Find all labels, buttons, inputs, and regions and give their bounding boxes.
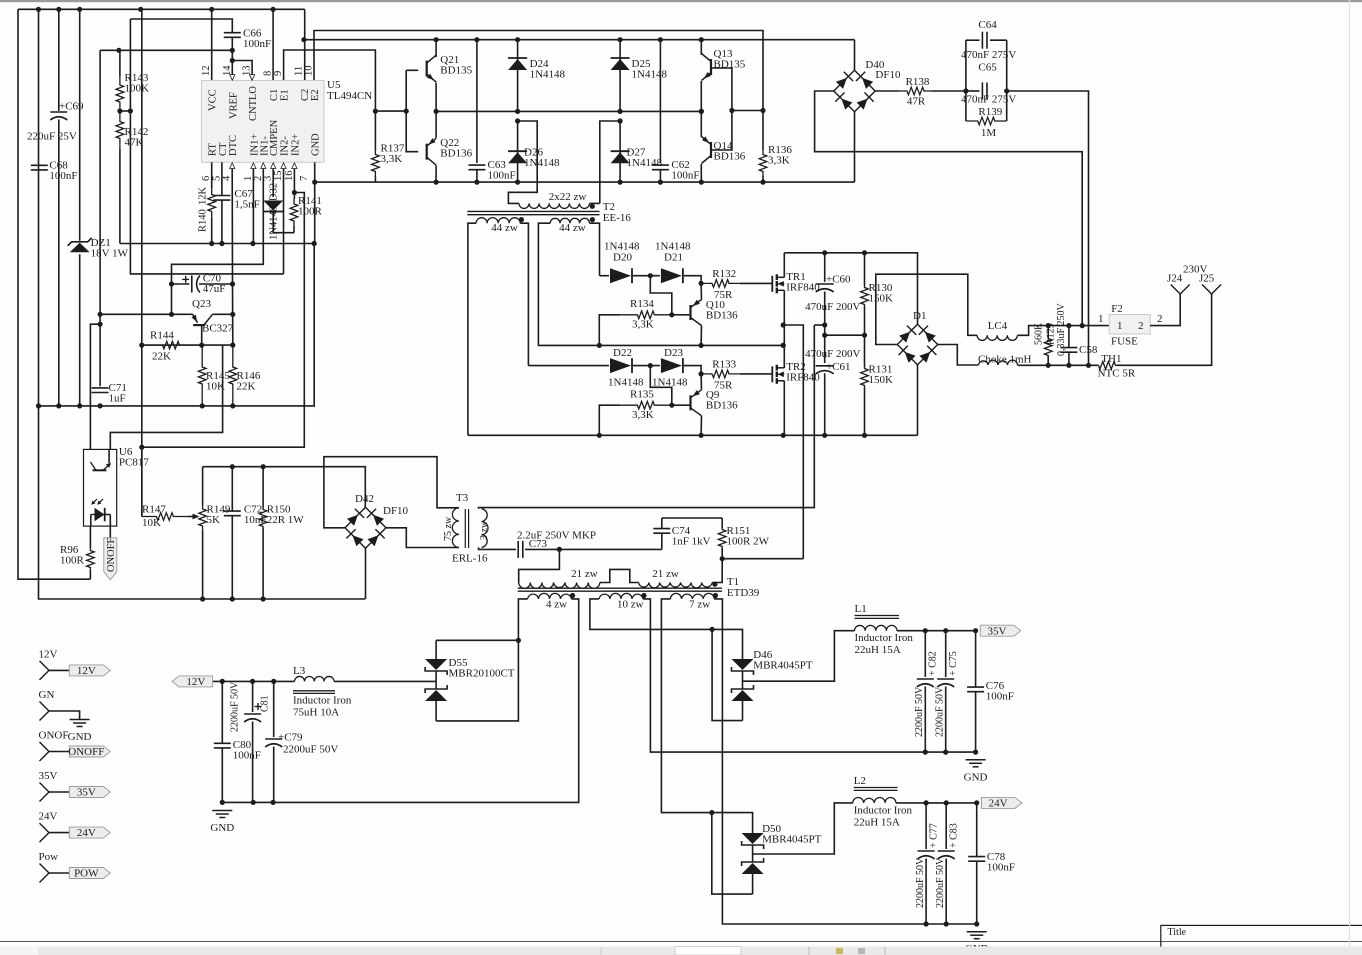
label R147 (142, 504, 166, 516)
transistor TR1 IRF840 (772, 274, 784, 293)
label F2 pin2 wire (1157, 313, 1163, 325)
junction (312, 180, 317, 185)
connector J24 (1171, 285, 1190, 295)
junction (1046, 363, 1092, 368)
wire R130 bottom / R131 top (864, 306, 866, 367)
wire GND bus y406 up to pin7 column (39, 244, 315, 406)
label C77 (929, 823, 940, 848)
zener DZ1 (68, 238, 92, 252)
net flag ONOFF (vertical) (104, 537, 117, 579)
wire base column down to Q22 (406, 70, 418, 151)
resistor R142 (116, 111, 124, 149)
wire D46 cathode to L1 (743, 631, 855, 682)
label C69 (59, 101, 84, 113)
wire base top jog (406, 69, 418, 71)
capacitor C60 (816, 284, 834, 292)
wire R147 left column (141, 447, 143, 516)
svg-text:Inductor Iron: Inductor Iron (855, 632, 914, 644)
wire C67 bottom (221, 200, 223, 244)
wire top VCC-aux bus y9 (18, 8, 305, 10)
wire L3 to 12V flag (213, 680, 295, 682)
label TH1 value (1098, 368, 1136, 380)
wire cap-mid jumper to T3 riser (814, 324, 824, 326)
svg-text:D22: D22 (613, 347, 632, 359)
capacitor C65 (982, 83, 987, 100)
wire D24/D26 node to T2 primary left (508, 121, 537, 203)
svg-text:MBR4045PT: MBR4045PT (753, 660, 813, 672)
wire C72 bottom (231, 516, 233, 599)
resistor R129 (1044, 338, 1052, 356)
junction (230, 58, 235, 63)
wire D46 anode loop left (712, 629, 742, 720)
wire stub 24V to flag (49, 832, 69, 834)
label C66 (243, 28, 271, 51)
svg-text:+C69: +C69 (59, 101, 84, 113)
capacitor C64 (982, 32, 987, 49)
label D23 value (652, 377, 688, 389)
label C70 (203, 273, 226, 296)
label T2 (603, 201, 632, 224)
wire 4zw left to D55 top (436, 639, 518, 641)
svg-text:100R: 100R (298, 206, 323, 218)
wire IN2- pin15 column (283, 169, 285, 274)
resistor R141 (290, 199, 298, 226)
wire R141 bottom stub (293, 226, 295, 233)
svg-text:Q23: Q23 (192, 298, 211, 310)
svg-text:J24: J24 (1167, 273, 1183, 285)
svg-text:D20: D20 (613, 252, 632, 264)
wire R137 bottom (374, 176, 376, 182)
diode D27 (611, 121, 630, 182)
resistor R134 (620, 311, 672, 319)
wire E1 line to Q21/Q22 drive (284, 50, 376, 111)
svg-text:GND: GND (964, 772, 988, 784)
junction T1 primary phase dot (712, 582, 717, 587)
wire R149 bottom (202, 530, 204, 599)
junction (36, 403, 236, 408)
wire D20-D21 link (633, 275, 660, 277)
capacitor C61 (816, 366, 834, 374)
junction (220, 800, 276, 805)
op-amp U5 TL494CN body (202, 81, 325, 163)
svg-text:D21: D21 (664, 252, 683, 264)
wire U6 collector to VREF column (90, 324, 100, 449)
label Q23 value (202, 323, 234, 335)
inductor T3 secondary 3zw (482, 509, 489, 548)
label F2 value (1111, 336, 1138, 348)
wire y467 line to D42 top (203, 467, 366, 508)
svg-text:D23: D23 (664, 347, 683, 359)
junction (862, 333, 867, 338)
label C67 (234, 188, 259, 211)
wire stub ONOF to flag (49, 751, 69, 753)
wire C70 left lead (172, 283, 190, 285)
svg-text:R132: R132 (712, 268, 736, 280)
wire J25 to TH1 right (1117, 294, 1212, 365)
wire R140 bottom (211, 218, 213, 244)
diode D23 (661, 358, 683, 373)
svg-text:C1: C1 (269, 89, 280, 101)
capacitor C67 (213, 196, 230, 201)
diode D25 (611, 40, 630, 112)
svg-text:Pow: Pow (39, 851, 59, 863)
label R143 (125, 72, 150, 95)
wire Q13/Q14 base column (711, 68, 732, 150)
diode D55 lower half (425, 685, 447, 701)
wire Q10 base stub (672, 314, 691, 316)
resistor R136 (759, 150, 767, 176)
svg-text:100R 2W: 100R 2W (727, 536, 770, 548)
wire R137 top (374, 111, 376, 150)
inductor LC4 lower winding (Choke 1mH) (978, 360, 1017, 365)
transistor Q13 BD135 (702, 54, 712, 81)
label R146 (237, 370, 261, 393)
wire IN1- line to C70 left (172, 169, 264, 285)
svg-text:3,3K: 3,3K (381, 153, 403, 165)
junction (648, 363, 653, 368)
svg-text:LC4: LC4 (988, 320, 1008, 332)
resistor R130 (861, 286, 869, 306)
wire C58 bottom (1068, 352, 1070, 365)
wire VCC pin12 riser (211, 9, 213, 80)
wire R142 bottom to rail (119, 149, 121, 244)
junction (220, 679, 277, 684)
wire R150 bottom (262, 528, 264, 599)
capacitor C62 (652, 165, 669, 170)
label F2 pin1 (1098, 313, 1104, 325)
svg-text:TL494CN: TL494CN (327, 90, 372, 102)
svg-text:12K: 12K (198, 187, 209, 206)
junction (516, 638, 521, 643)
connector stub label 35V (39, 770, 58, 782)
wire C73 node to T1 primary left (519, 549, 560, 582)
wire rail y19 to C66 top (130, 19, 232, 33)
label R131 (869, 364, 894, 387)
junction (822, 250, 867, 255)
wire driver GND bus y182 (315, 181, 855, 183)
connector stub label Pow (39, 851, 59, 863)
capacitor C72 (224, 511, 241, 516)
wire C62 bottom (659, 170, 661, 183)
junction (699, 109, 704, 114)
svg-text:1: 1 (1098, 313, 1104, 325)
label D50 (762, 823, 822, 846)
svg-text:+ C83: + C83 (949, 823, 960, 848)
label L3 value (293, 707, 339, 719)
label C64 value (961, 49, 1016, 61)
svg-text:2200uF 50V: 2200uF 50V (914, 686, 925, 737)
wire C70 right lead (199, 283, 233, 285)
label T3 (456, 492, 469, 504)
label L2 core (854, 788, 898, 791)
label D23 (664, 347, 683, 359)
wire pin4 column lower (232, 284, 234, 345)
wire C69 top segment (58, 9, 60, 111)
svg-text:R134: R134 (630, 298, 654, 310)
svg-text:BD135: BD135 (440, 65, 472, 77)
wire R136 bottom (762, 176, 764, 182)
junction (597, 433, 704, 438)
inductor L3 (295, 676, 334, 681)
svg-text:IN2-: IN2- (280, 136, 291, 156)
svg-text:470nF 275V: 470nF 275V (961, 49, 1016, 61)
wire C74 bottom lead (661, 533, 663, 549)
junction (230, 464, 266, 469)
junction (169, 312, 174, 317)
wire R149 top (202, 467, 204, 505)
label L2 value (854, 817, 900, 829)
label R140 (198, 209, 209, 232)
net flag ONOFF stub (68, 746, 110, 758)
svg-text:470uF 200V: 470uF 200V (805, 348, 860, 360)
wire CMPEN pin3 stub (272, 169, 274, 198)
wire DTC pin4 column (231, 169, 233, 285)
svg-text:F2: F2 (1111, 303, 1123, 315)
svg-text:D1: D1 (913, 310, 926, 322)
wire TR1 drain to HV bus (783, 253, 785, 277)
label D21 value (655, 241, 691, 253)
wire D32 cathode to R141 bottom (273, 212, 294, 233)
wire GN stub to ground (49, 711, 80, 720)
svg-text:7 zw: 7 zw (689, 599, 710, 611)
wire R147 wiper arrow (188, 514, 200, 520)
svg-text:2200uF 50V: 2200uF 50V (915, 857, 926, 908)
wire IN2+ sense line to R147 rail (142, 193, 304, 448)
junction (923, 750, 979, 755)
wire 10zw left end to D46 anodes (590, 599, 743, 660)
svg-text:2200uF 50V: 2200uF 50V (230, 681, 241, 732)
label C81 (260, 695, 271, 712)
svg-text:L1: L1 (855, 603, 867, 615)
wire Q10 emitter down (700, 326, 702, 346)
wire D55 common cathode mid (435, 671, 437, 689)
svg-text:1,5nF: 1,5nF (234, 199, 259, 211)
label C78 (987, 851, 1015, 874)
svg-text:100R: 100R (60, 555, 85, 567)
label C62 (671, 159, 699, 182)
wire LC4 upper to fuse rail (1017, 326, 1109, 336)
wire Q21/Q22 emitter junction column (435, 83, 437, 138)
wire C70-left down to emitter line (171, 284, 173, 314)
junction (781, 322, 786, 348)
svg-text:GND: GND (210, 822, 234, 834)
svg-text:12V: 12V (77, 665, 96, 677)
wire GND rail y243 (120, 243, 314, 245)
wire Q14 collector to bus (700, 164, 702, 182)
label R141 (298, 195, 323, 218)
junction (373, 109, 409, 114)
svg-text:ONOFF: ONOFF (106, 537, 117, 572)
svg-text:22K: 22K (237, 381, 256, 393)
svg-text:L3: L3 (293, 665, 306, 677)
wire C2 pin11 riser (304, 9, 306, 80)
svg-text:J25: J25 (1199, 273, 1215, 285)
junction (669, 403, 674, 408)
resistor R138 (899, 87, 932, 95)
wire IN1+ pin1 column (252, 169, 254, 244)
junction (699, 371, 704, 376)
wire C77 top (925, 803, 927, 849)
resistor R132 (701, 280, 740, 288)
svg-text:R133: R133 (712, 359, 736, 371)
junction T2 secA phase dot (519, 217, 524, 222)
svg-text:150K: 150K (869, 374, 894, 386)
svg-text:1nF 1kV: 1nF 1kV (672, 536, 711, 548)
svg-text:2200uF 50V: 2200uF 50V (934, 686, 945, 737)
label C79 value (283, 744, 338, 756)
svg-text:21 zw: 21 zw (652, 568, 679, 580)
wire D50 common cathode mid (752, 845, 754, 862)
resistor R145 (198, 345, 206, 406)
resistor R151 (718, 528, 726, 548)
ground GND 24V section (967, 932, 987, 939)
wire R151 bottom (721, 548, 723, 559)
svg-text:BD136: BD136 (706, 400, 738, 412)
svg-text:R129: R129 (1046, 323, 1057, 345)
label Choke 1mH (978, 354, 1032, 366)
label D1 (913, 310, 926, 322)
resistor R147 (142, 513, 188, 521)
svg-text:R147: R147 (142, 504, 166, 516)
svg-text:21 zw: 21 zw (571, 568, 598, 580)
svg-text:1N4148: 1N4148 (524, 157, 560, 169)
svg-text:22K: 22K (152, 351, 171, 363)
junction (924, 921, 980, 926)
svg-text:IRF840: IRF840 (786, 372, 820, 384)
wire E2 line to Q13/Q14 drive (314, 31, 763, 111)
capacitor C74 (653, 529, 670, 534)
label T1 21zw A (571, 568, 598, 580)
svg-text:GN: GN (39, 689, 55, 701)
label L2 (854, 775, 866, 787)
diode D20 (610, 268, 632, 283)
wire 4zw left end to D55 bottom (436, 599, 527, 721)
wire C74 top lead (661, 518, 663, 529)
svg-text:35V: 35V (39, 770, 58, 782)
wire R132 to TR1 gate (740, 282, 772, 284)
wire C75 top (945, 631, 947, 677)
wire divider junction jumper (120, 110, 130, 112)
capacitor C80 (214, 743, 231, 748)
svg-text:DF10: DF10 (875, 69, 901, 81)
svg-text:MBR20100CT: MBR20100CT (449, 668, 515, 680)
connector stub 12V (40, 661, 50, 680)
wire T2 primary right tail (590, 202, 600, 204)
label C58 value (1056, 302, 1067, 356)
svg-text:C65: C65 (978, 62, 997, 74)
wire R96 bottom (89, 570, 91, 579)
svg-text:C64: C64 (978, 19, 997, 31)
svg-text:35V: 35V (988, 625, 1007, 637)
junction (822, 433, 827, 438)
wire C62 top column (659, 40, 661, 163)
svg-text:Inductor Iron: Inductor Iron (854, 805, 913, 817)
wire Q23 collector line right (213, 313, 233, 315)
label R134 (630, 298, 654, 310)
svg-text:T3: T3 (456, 492, 469, 504)
label C64 (978, 19, 997, 31)
label U5 bottom-row pin names (208, 119, 322, 156)
svg-text:C81: C81 (260, 695, 271, 712)
transistor Q10 BD136 (691, 300, 702, 326)
svg-text:4: 4 (222, 175, 233, 181)
svg-text:16: 16 (284, 171, 295, 182)
diode D21 (661, 268, 683, 283)
svg-text:100nF: 100nF (987, 862, 1015, 874)
wire C58 top (1068, 326, 1070, 348)
net flag 35V output (980, 625, 1021, 637)
wire stub Pow to flag (49, 872, 69, 874)
label D42 (355, 493, 374, 505)
label D20 (613, 252, 632, 264)
svg-text:BD136: BD136 (706, 310, 738, 322)
label T3 type (452, 553, 488, 565)
label R133 value (714, 380, 733, 392)
label U5 refdes (327, 79, 372, 102)
label C73 (529, 538, 548, 550)
wire Q23 emitter line left (100, 313, 193, 315)
wire 4zw right end to 12V GND bus (222, 599, 578, 803)
right scrollbar separator (1349, 0, 1351, 946)
net flag 12V output (172, 676, 213, 688)
svg-text:VREF: VREF (228, 92, 239, 119)
label T3 75zw (443, 516, 454, 541)
junction (618, 118, 623, 123)
svg-text:DF10: DF10 (383, 505, 409, 517)
label R132 value (714, 289, 733, 301)
wire T2 secB right end down to D20 (590, 223, 600, 276)
wire C64/C65 bracket left (965, 40, 967, 121)
label Q9 (706, 389, 738, 412)
svg-text:4 zw: 4 zw (546, 599, 567, 611)
svg-text:1N4148: 1N4148 (608, 377, 644, 389)
wire D55 lower anode lead (435, 701, 437, 721)
label U6 (119, 446, 149, 469)
junction T2 primary phase dot (590, 204, 595, 209)
wire rail x38 down to GND bus y599 (39, 9, 366, 599)
wire C63 bottom (476, 170, 478, 183)
wire to T1 primary right end (721, 559, 723, 580)
label DZ1 (91, 237, 129, 260)
svg-text:R138: R138 (906, 76, 930, 88)
label U5 top-row pin names (208, 86, 321, 121)
svg-text:FUSE: FUSE (1111, 336, 1138, 348)
wire bus to D40 top (854, 40, 856, 70)
label R150 (267, 504, 305, 527)
wire T3 3zw bottom to C73 (479, 548, 517, 550)
svg-text:+ C77: + C77 (929, 823, 940, 848)
label F2 inner pin2 (1138, 320, 1144, 332)
wire L1 to 35V flag (897, 630, 976, 632)
svg-text:22R 1W: 22R 1W (267, 514, 305, 526)
wire D40 bottom to driver GND bus (854, 112, 856, 182)
label R130 (869, 282, 894, 305)
inductor T1 secondary 10zw (599, 593, 643, 599)
label C81 value (230, 681, 241, 732)
resistor R135 (620, 401, 672, 409)
wire cap-mid to R-divider mid (825, 334, 865, 336)
capacitor C81 (244, 703, 261, 722)
junction (669, 312, 674, 317)
svg-text:1N4148: 1N4148 (627, 157, 663, 169)
wire C80 top (221, 681, 223, 743)
svg-text:ETD39: ETD39 (727, 587, 760, 599)
label C63 (488, 159, 516, 182)
wire C60 top (824, 253, 826, 282)
label L3 (293, 665, 306, 677)
wire D40 AC1 to mains-L rail (815, 91, 1083, 326)
bridge rectifier D40 (834, 70, 875, 111)
